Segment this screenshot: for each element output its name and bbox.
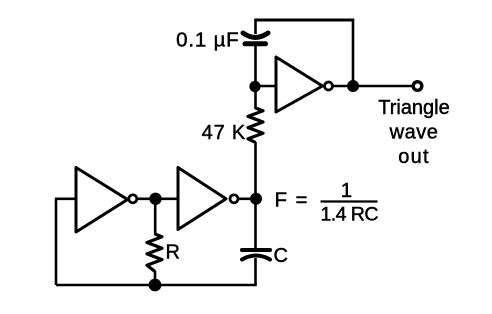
svg-text:1.4 RC: 1.4 RC — [321, 204, 379, 226]
wire node B down to capacitor C — [254, 199, 257, 249]
wire junction down to resistor R — [154, 199, 157, 235]
label Triangle wave out — [378, 97, 450, 168]
svg-text:0.1 µF: 0.1 µF — [176, 29, 239, 52]
resistor R1 47K — [248, 108, 263, 143]
node B junction dot — [250, 193, 262, 205]
svg-text:Triangle: Triangle — [378, 97, 450, 119]
svg-text:wave: wave — [389, 122, 439, 144]
node F formula label — [275, 179, 379, 226]
wire U1 output — [334, 85, 413, 88]
svg-text:out: out — [398, 146, 429, 168]
svg-text:R: R — [166, 242, 180, 264]
wire top feedback horizontal — [255, 19, 354, 22]
wire feedback vertical right — [352, 19, 355, 87]
wire resistor R to bottom node — [154, 271, 157, 285]
node junction U2-U3 dot — [149, 193, 161, 205]
wire U3 output to node B — [239, 198, 255, 201]
wire rail top stub to capacitor C1 — [254, 19, 257, 35]
wire bottom horizontal — [56, 284, 257, 287]
node bottom junction dot — [149, 279, 162, 292]
op-amp U2 inverter left — [76, 168, 137, 233]
capacitor C1 0.1uF — [243, 33, 268, 44]
resistor R — [147, 234, 162, 272]
node junction feedback/output — [347, 80, 359, 92]
wire node A down to resistor R1 — [254, 86, 257, 109]
svg-text:47 K: 47 K — [202, 122, 246, 144]
wire rail capacitor C1 to node A — [254, 44, 257, 86]
op-amp U1 inverter top — [276, 57, 333, 112]
wire left vertical feedback — [55, 199, 58, 285]
wire U2 input — [55, 198, 76, 201]
wire capacitor C to bottom wire — [254, 258, 257, 285]
wire resistor R1 to node B — [254, 142, 257, 199]
svg-text:=: = — [296, 189, 308, 212]
node A junction dot — [249, 81, 260, 92]
wire node A to U1 input — [255, 85, 276, 88]
svg-text:C: C — [274, 245, 288, 267]
terminal output ring — [413, 82, 422, 91]
capacitor C — [242, 250, 270, 260]
op-amp U3 inverter middle — [178, 168, 238, 230]
wire U2 output to U3 input — [138, 198, 178, 201]
svg-text:F: F — [275, 189, 288, 212]
svg-text:1: 1 — [341, 179, 352, 202]
